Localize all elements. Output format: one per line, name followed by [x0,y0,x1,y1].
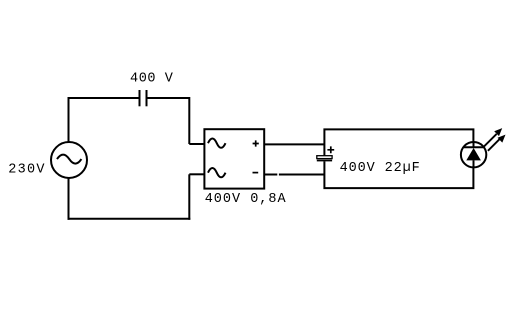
svg-text:230V: 230V [8,163,46,178]
svg-text:400V 22µF: 400V 22µF [340,161,421,176]
svg-text:400 V: 400 V [130,71,174,86]
svg-text:400V 0,8A: 400V 0,8A [205,192,287,207]
